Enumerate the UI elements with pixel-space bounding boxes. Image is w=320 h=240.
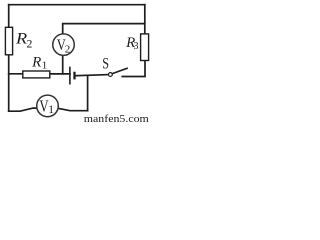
svg-text:1: 1 [42, 60, 48, 72]
svg-text:1: 1 [48, 104, 54, 116]
svg-text:3: 3 [134, 41, 139, 52]
svg-text:manfen5.com: manfen5.com [84, 114, 149, 125]
svg-text:2: 2 [27, 37, 33, 51]
svg-text:S: S [102, 55, 109, 73]
svg-text:2: 2 [65, 44, 71, 56]
svg-text:R: R [31, 55, 41, 71]
